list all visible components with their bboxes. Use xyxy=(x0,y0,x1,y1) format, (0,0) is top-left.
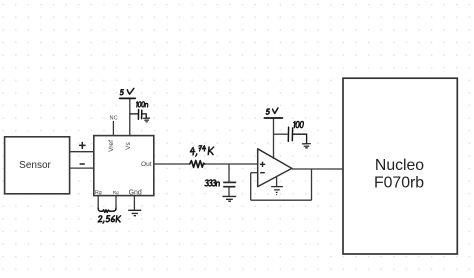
wire op-amp V+ supply xyxy=(273,118,275,159)
svg-text:F070rb: F070rb xyxy=(374,174,424,191)
svg-text:Sensor: Sensor xyxy=(19,160,51,171)
svg-text:Gnd: Gnd xyxy=(129,190,142,197)
label 100n xyxy=(136,102,137,107)
wire R2 to op-amp input xyxy=(205,163,258,165)
capacitor C3 plates xyxy=(287,127,289,141)
ground C3 xyxy=(302,144,310,148)
wire feedback down xyxy=(311,169,313,200)
op-amp + input mark xyxy=(260,162,265,167)
ground U1 xyxy=(128,210,141,215)
label 5V (5) over op-amp xyxy=(266,109,269,114)
label - xyxy=(80,163,85,165)
capacitor C2 333n plates xyxy=(223,181,236,183)
svg-text:Vs: Vs xyxy=(125,141,132,149)
label 100 xyxy=(293,121,295,127)
ground C1 xyxy=(143,118,149,122)
label 5V (5) over U1 xyxy=(120,90,123,95)
node junction C2 xyxy=(228,164,230,182)
wire sensor - to U1 xyxy=(70,167,94,169)
ground op-amp xyxy=(271,187,283,195)
svg-text:Out: Out xyxy=(141,161,152,168)
svg-text:Rg: Rg xyxy=(95,190,102,196)
wire feedback to - input xyxy=(251,172,258,174)
pin Gnd stub xyxy=(133,196,135,211)
resistor R1 2.56K squiggle xyxy=(98,208,116,212)
pin Rg left stub xyxy=(97,196,99,209)
svg-text:Nucleo: Nucleo xyxy=(375,157,424,174)
svg-text:Rg: Rg xyxy=(113,190,119,195)
wire feedback bottom xyxy=(251,199,312,201)
wire C3 to ground xyxy=(293,134,307,143)
wire op-amp V- stub xyxy=(276,176,278,186)
wire to C1 xyxy=(130,113,138,115)
capacitor C1 plates xyxy=(137,110,139,120)
wire feedback up xyxy=(250,173,252,201)
ground C2 xyxy=(222,196,236,201)
op-amp - input mark xyxy=(260,172,265,174)
pin NC stub xyxy=(112,121,114,136)
sensor block xyxy=(5,137,70,194)
power 5V rail bar over U1 xyxy=(120,97,136,99)
wire C1 to ground xyxy=(142,114,147,118)
svg-text:NC: NC xyxy=(110,115,118,121)
label + xyxy=(79,142,86,149)
label 4,74 K xyxy=(190,147,195,154)
label 2,56K xyxy=(98,216,102,222)
label 5V (V) over op-amp xyxy=(273,108,278,114)
wire op-amp output to Nucleo xyxy=(292,168,344,170)
wire U1 Out to R2 xyxy=(154,163,190,165)
svg-text:Vref: Vref xyxy=(108,140,115,152)
wire C2 to ground xyxy=(228,187,230,197)
power 5V rail bar over op-amp xyxy=(264,117,282,119)
wire Vs supply vertical xyxy=(129,98,131,135)
wire sensor + to U1 xyxy=(70,151,94,153)
op-amp U2 body xyxy=(258,149,292,187)
pin Rg right stub xyxy=(115,196,117,209)
wire to C3 xyxy=(274,133,288,135)
op-amp U1 body xyxy=(94,136,154,196)
label 333n xyxy=(205,180,209,186)
Nucleo F070rb block xyxy=(343,78,457,254)
label 5V (V) over U1 xyxy=(127,88,134,94)
resistor R2 4.74K zigzag xyxy=(190,160,205,167)
